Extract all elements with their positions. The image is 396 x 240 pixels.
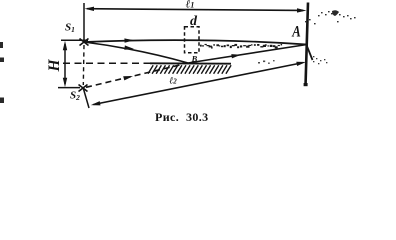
virtual ray from S2 (dashed) <box>86 64 183 87</box>
svg-text:B: B <box>191 54 198 64</box>
svg-text:d: d <box>190 14 198 29</box>
virtual source point S2 (cross mark) <box>79 85 88 92</box>
scan speckles under direct ray <box>200 44 282 49</box>
scan speckles near l2 arrow <box>258 60 275 64</box>
screen foot blob <box>304 83 308 86</box>
stray stroke at screen <box>307 45 313 60</box>
extension segment below S2 <box>84 89 90 108</box>
scan speckles right of screen mid <box>313 56 327 64</box>
mirror hatching <box>148 65 231 74</box>
mirror plane dashed extension <box>63 62 157 64</box>
tick at S2 level <box>58 87 80 89</box>
scan speckles top right <box>305 10 356 24</box>
source point S1 (cross mark) <box>80 39 89 46</box>
direct ray S1 to A <box>84 38 307 44</box>
dimension line l2 <box>91 62 306 106</box>
incident ray S1 to B <box>84 42 188 63</box>
dimension line l1 <box>85 7 307 13</box>
svg-text:ℓ1: ℓ1 <box>186 0 195 10</box>
svg-text:A: A <box>291 23 301 41</box>
dimension arrow H <box>63 41 67 87</box>
diaphragm d (dashed rectangle) <box>185 27 200 53</box>
dashed line S1 to S2 <box>82 45 85 85</box>
svg-text:ℓ2: ℓ2 <box>169 77 177 87</box>
mirror surface edge <box>150 62 231 64</box>
svg-text:Рис. 30.3: Рис. 30.3 <box>155 110 209 124</box>
svg-text:H: H <box>46 59 63 73</box>
tick at S1 level <box>61 39 88 41</box>
extension line above S1 <box>83 3 85 42</box>
page edge marks left <box>0 42 4 103</box>
screen (vertical line) <box>306 3 309 87</box>
reflected ray B to A <box>188 45 307 64</box>
